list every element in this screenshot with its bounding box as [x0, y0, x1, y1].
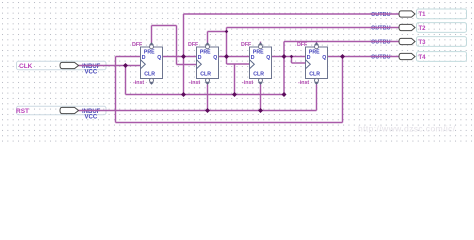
svg-text:T2: T2 — [419, 26, 427, 32]
svg-text:VCC: VCC — [85, 70, 98, 76]
svg-text:T4: T4 — [419, 55, 427, 61]
svg-text:DFF: DFF — [132, 42, 143, 48]
svg-text:-inst: -inst — [189, 80, 200, 86]
svg-text:http://www.dzsc.com/ic/: http://www.dzsc.com/ic/ — [358, 124, 456, 134]
svg-text:T3: T3 — [419, 40, 427, 46]
svg-text:OUTBU: OUTBU — [371, 55, 391, 61]
svg-text:-inst: -inst — [242, 80, 253, 86]
svg-text:OUTBU: OUTBU — [371, 26, 391, 32]
svg-text:RST: RST — [16, 108, 29, 115]
svg-text:VCC: VCC — [85, 115, 98, 121]
svg-text:OUTBU: OUTBU — [371, 12, 391, 18]
svg-text:OUTBU: OUTBU — [371, 40, 391, 46]
svg-text:DFF: DFF — [297, 42, 308, 48]
svg-text:-inst: -inst — [298, 80, 309, 86]
svg-text:DFF: DFF — [188, 42, 199, 48]
svg-text:DFF: DFF — [241, 42, 252, 48]
svg-text:-inst: -inst — [133, 80, 144, 86]
svg-text:CLK: CLK — [19, 63, 33, 70]
svg-text:T1: T1 — [419, 12, 427, 18]
